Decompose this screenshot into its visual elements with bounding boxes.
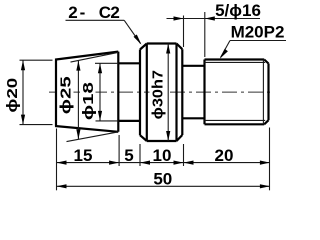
flange right chamfer circle line bbox=[175, 44, 177, 142]
thread left face bbox=[203, 60, 205, 125]
dimension text phi30h7 halo bbox=[150, 68, 167, 121]
dimension phi18 extension line top bbox=[95, 62, 118, 64]
dimension row line 50 bbox=[57, 185, 270, 187]
dimension 20 right arrow bbox=[260, 161, 270, 165]
dimension phi25 arrow down bbox=[76, 129, 80, 139]
dimension 20 left arrow bbox=[184, 161, 194, 165]
dimension phi25 sloped extension line top bbox=[71, 52, 119, 62]
flange bottom-left chamfer bbox=[140, 135, 147, 141]
label 2-C2 leader line bbox=[124, 20, 140, 43]
svg-text:5/ϕ16: 5/ϕ16 bbox=[215, 1, 261, 20]
flange right face bbox=[181, 49, 183, 135]
svg-text:ϕ20: ϕ20 bbox=[4, 78, 21, 113]
svg-text:10: 10 bbox=[153, 146, 172, 165]
taper cone top edge bbox=[55, 52, 118, 60]
dimension phi20 line bbox=[22, 60, 24, 124]
flange top edge bbox=[147, 42, 177, 44]
thread bottom-right chamfer bbox=[264, 120, 268, 124]
svg-text:ϕ18: ϕ18 bbox=[80, 82, 97, 120]
dimension phi20 extension line top bbox=[20, 59, 53, 61]
dimension phi20 extension line bottom bbox=[20, 124, 53, 126]
thread root line bottom (thin) bbox=[205, 119, 266, 121]
thread end chamfer circle line (thin) bbox=[262, 60, 264, 125]
taper cone left face bbox=[55, 60, 57, 126]
thread right end face bbox=[267, 64, 269, 121]
dimension phi20 arrow down bbox=[21, 115, 25, 125]
dimension 10 left arrow bbox=[140, 161, 150, 165]
groove dimension arrow pointing right bbox=[174, 16, 184, 20]
flange left face bbox=[139, 50, 141, 136]
groove dimension left extension line bbox=[183, 16, 185, 48]
dimension 15 left arrow bbox=[57, 161, 67, 165]
groove dimension 5/phi16 line with left tail bbox=[167, 18, 261, 20]
groove dimension right extension line bbox=[204, 12, 206, 57]
bottom extension line at thread end face bbox=[269, 128, 271, 191]
taper cone bottom edge bbox=[55, 126, 118, 132]
dimension row line 15 5 10 20 bbox=[57, 162, 270, 164]
groove dimension arrow pointing left bbox=[205, 16, 215, 20]
flange top-right chamfer bbox=[177, 44, 183, 50]
phi18 neck bottom edge bbox=[118, 120, 140, 122]
dimension phi18 arrow up bbox=[98, 63, 102, 73]
bottom extension line at cone left face bbox=[56, 129, 58, 191]
svg-text:15: 15 bbox=[74, 146, 93, 165]
taper cone right face (phi25 big end) bbox=[117, 52, 119, 132]
dimension 15 right arrow bbox=[109, 161, 119, 165]
dimension phi18 arrow down bbox=[98, 111, 102, 121]
dimension phi30h7 arrow up bbox=[166, 44, 170, 54]
thread bottom crest line bbox=[205, 123, 265, 125]
dimension text phi25 halo bbox=[58, 73, 74, 118]
thread root line top (thin) bbox=[205, 61, 266, 63]
centerline bbox=[49, 91, 272, 93]
label 2-C2 underline bbox=[66, 19, 125, 21]
svg-text:50: 50 bbox=[153, 169, 172, 188]
dimension phi18 extension line bottom bbox=[95, 120, 118, 122]
thread relief groove top edge (phi16) bbox=[182, 65, 204, 67]
dimension text phi18 halo bbox=[80, 79, 96, 124]
bottom extension line at flange left face bbox=[139, 144, 141, 166]
dimension 10 right arrow bbox=[174, 161, 184, 165]
flange bottom edge bbox=[147, 140, 177, 142]
dimension 50 right arrow bbox=[260, 184, 270, 188]
svg-text:M20P2: M20P2 bbox=[231, 23, 285, 42]
flange top-left chamfer bbox=[140, 44, 147, 50]
dimension phi25 line bbox=[77, 61, 79, 140]
dimension phi25 arrow up bbox=[76, 61, 80, 71]
dimension phi18 line bbox=[99, 63, 101, 121]
dimension phi20 arrow up bbox=[21, 60, 25, 70]
label M20P2 underline bbox=[230, 40, 286, 42]
phi18 neck top edge bbox=[118, 62, 140, 64]
label M20P2 leader arrow bbox=[220, 49, 228, 59]
dimension 50 left arrow bbox=[57, 184, 67, 188]
svg-text:ϕ30h7: ϕ30h7 bbox=[150, 70, 166, 120]
dimension phi30h7 arrow down bbox=[166, 131, 170, 141]
thread top-right chamfer bbox=[264, 60, 268, 64]
flange bottom-right chamfer bbox=[177, 135, 183, 141]
bottom extension line at cone right face bbox=[118, 135, 120, 166]
thread top crest line bbox=[205, 58, 265, 60]
label M20P2 leader line bbox=[221, 41, 231, 58]
svg-text:20: 20 bbox=[215, 146, 234, 165]
svg-text:ϕ25: ϕ25 bbox=[57, 76, 74, 114]
bottom extension line at flange right face bbox=[183, 144, 185, 166]
thread relief groove bottom edge bbox=[182, 117, 204, 119]
label 2-C2 leader arrow bbox=[134, 35, 142, 45]
dimension phi25 sloped extension line bottom bbox=[67, 132, 119, 142]
flange left chamfer circle line bbox=[146, 44, 148, 142]
svg-text:5: 5 bbox=[124, 146, 133, 165]
dimension phi30h7 line bbox=[167, 44, 169, 142]
